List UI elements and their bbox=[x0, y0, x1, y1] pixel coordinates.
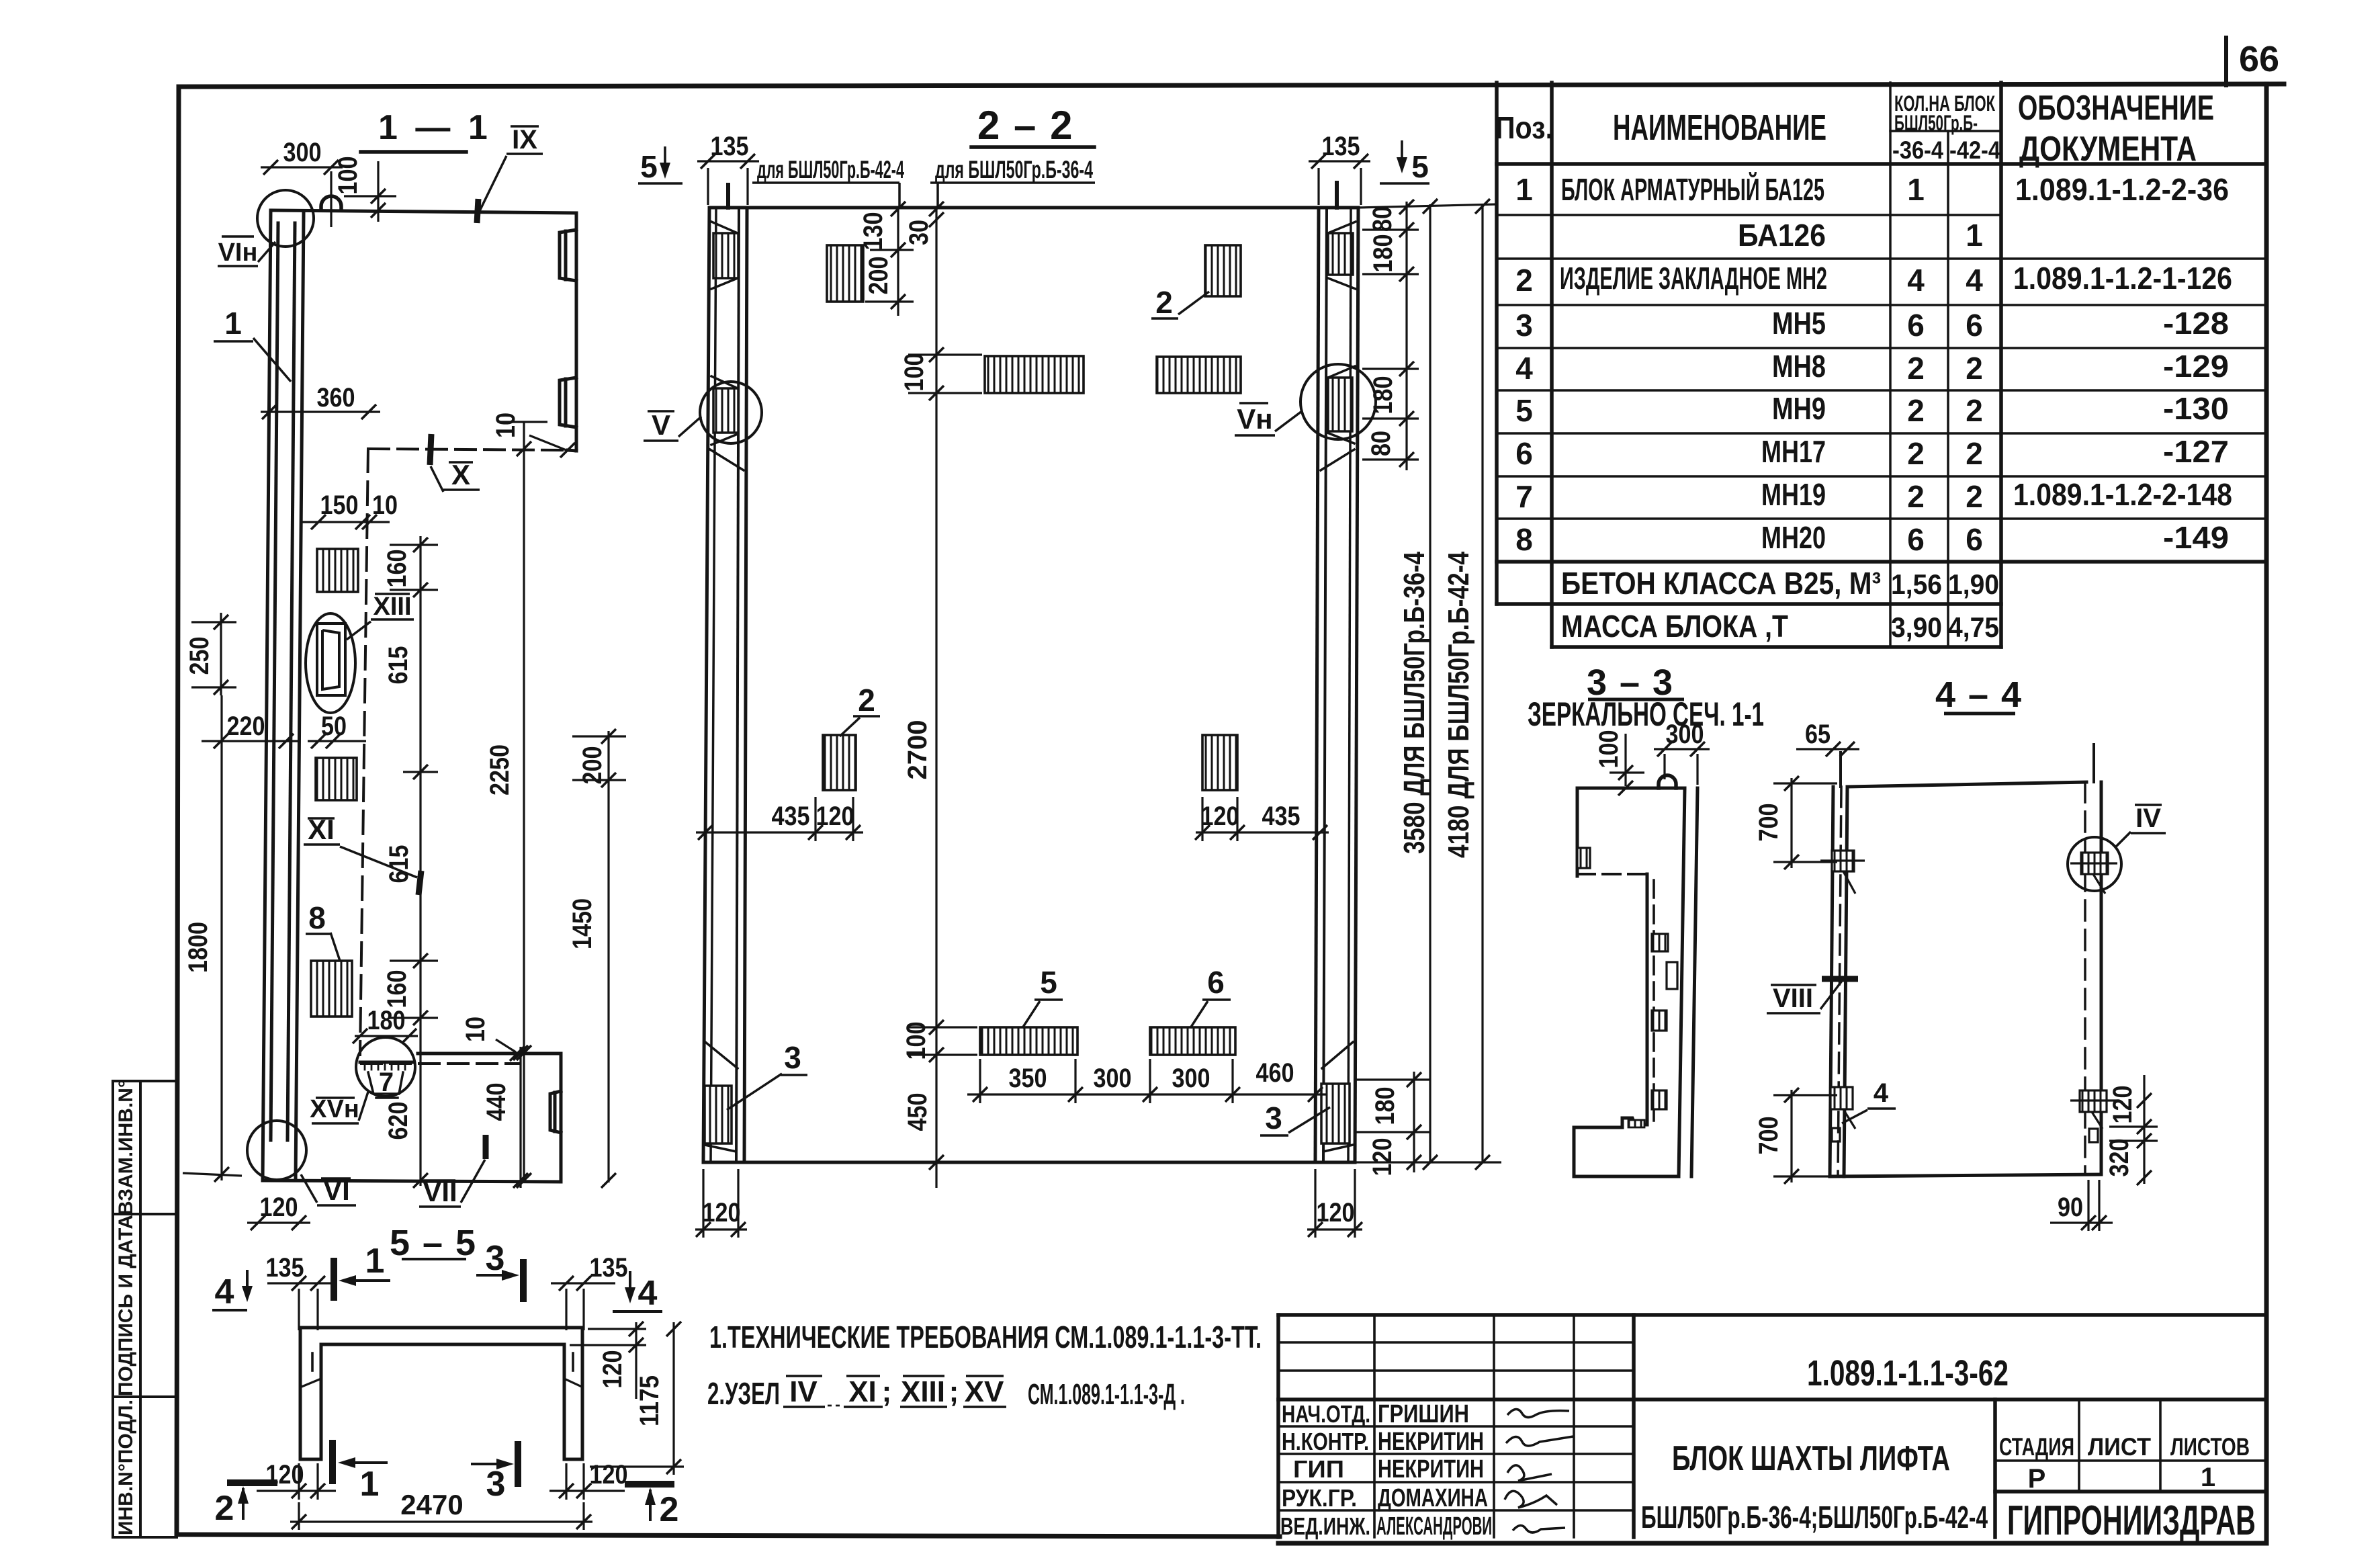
svg-text:1: 1 bbox=[1515, 172, 1533, 207]
svg-text:2250: 2250 bbox=[485, 744, 515, 795]
svg-text:1.089.1-1.1-3-62: 1.089.1-1.1-3-62 bbox=[1807, 1353, 2009, 1393]
svg-text:80: 80 bbox=[1368, 206, 1397, 232]
3-3 lifting loop bbox=[1659, 775, 1676, 788]
embedded plate (pos 4) upper bbox=[317, 549, 358, 592]
label VIн bbox=[218, 236, 275, 266]
section mark 3 top bbox=[476, 1259, 523, 1302]
right leg inner lines bbox=[1315, 208, 1319, 1162]
svg-text:2: 2 bbox=[1155, 285, 1173, 320]
embedded plate (pos 4) middle bbox=[316, 758, 357, 800]
dim 50 bbox=[308, 740, 366, 742]
4-4 left wall bbox=[1830, 787, 1833, 1176]
hidden vertical edge of flange plane (dashed) bbox=[360, 449, 368, 1055]
left leg plate bottom (pos 3) bbox=[705, 1086, 732, 1144]
svg-text:IV: IV bbox=[2135, 804, 2161, 833]
svg-text:30: 30 bbox=[904, 220, 934, 245]
svg-text:8: 8 bbox=[1515, 522, 1533, 557]
3-3 top face bbox=[1577, 787, 1685, 790]
4-4 plate in circle IV bbox=[2081, 853, 2108, 874]
3-3 left edge lower bbox=[1573, 1127, 1576, 1176]
note 2 numeral underlines bbox=[783, 1406, 825, 1408]
svg-text:1: 1 bbox=[1907, 172, 1925, 207]
dim 435/120 left bbox=[696, 797, 863, 841]
pos2 plate mid-left bbox=[823, 735, 856, 790]
svg-text:-128: -128 bbox=[2163, 306, 2229, 341]
svg-text:100: 100 bbox=[1594, 730, 1624, 769]
dim 135 top-right bbox=[1309, 161, 1370, 205]
svg-text:300: 300 bbox=[283, 138, 322, 167]
svg-text:120: 120 bbox=[703, 1198, 741, 1228]
svg-text:-36-4: -36-4 bbox=[1892, 136, 1943, 164]
3-3 inner vertical bbox=[1646, 874, 1649, 1125]
svg-text:;: ; bbox=[949, 1375, 959, 1408]
left leg bottom trapezoid bbox=[705, 1042, 738, 1068]
svg-text:2: 2 bbox=[1966, 479, 1983, 514]
svg-text:ВЕД.ИНЖ.: ВЕД.ИНЖ. bbox=[1280, 1512, 1370, 1540]
3-3 plate on left edge bbox=[1577, 848, 1590, 868]
left leg plate top bbox=[713, 233, 738, 278]
dim 440 bbox=[519, 1047, 521, 1188]
page number 66 tick bbox=[2224, 38, 2228, 85]
svg-text:4: 4 bbox=[1515, 351, 1533, 386]
label V bbox=[644, 411, 701, 441]
svg-text:IX: IX bbox=[512, 125, 537, 155]
svg-text:МН5: МН5 bbox=[1772, 306, 1826, 341]
svg-text:ПОДПИСЬ И ДАТА: ПОДПИСЬ И ДАТА bbox=[115, 1215, 137, 1396]
4-4 right wall bbox=[2084, 782, 2086, 1174]
svg-text:180: 180 bbox=[1370, 1087, 1400, 1125]
svg-text:135: 135 bbox=[1322, 132, 1360, 161]
svg-text:VIII: VIII bbox=[1773, 984, 1813, 1013]
section mark 3 bottom bbox=[471, 1441, 518, 1487]
svg-text:6: 6 bbox=[1207, 965, 1225, 1000]
svg-text:6: 6 bbox=[1966, 308, 1983, 343]
dim 2470 bbox=[290, 1502, 592, 1530]
svg-text:ГИП: ГИП bbox=[1293, 1455, 1344, 1483]
XVн trapezoid 7 bbox=[368, 1072, 403, 1094]
svg-text:МН20: МН20 bbox=[1761, 520, 1826, 555]
svg-text:5: 5 bbox=[1411, 149, 1429, 184]
svg-text:4: 4 bbox=[1874, 1078, 1889, 1108]
detail circle VIн bbox=[257, 190, 314, 247]
svg-text:БА126: БА126 bbox=[1738, 218, 1826, 253]
svg-text:-42-4: -42-4 bbox=[1949, 136, 2000, 164]
bottom flange notch bbox=[550, 1091, 561, 1133]
svg-text:350: 350 bbox=[1009, 1064, 1047, 1093]
upper flange notch 1 bbox=[560, 230, 576, 281]
section mark 2 left bbox=[227, 1483, 277, 1520]
section mark 1 top bbox=[334, 1258, 390, 1301]
svg-text:1,56: 1,56 bbox=[1891, 568, 1942, 600]
svg-text:6: 6 bbox=[1907, 308, 1925, 343]
svg-text:5: 5 bbox=[1515, 393, 1533, 428]
svg-text:БШЛ50Гр.Б-36-4;БШЛ50Гр.Б-42-4: БШЛ50Гр.Б-36-4;БШЛ50Гр.Б-42-4 bbox=[1641, 1500, 1988, 1535]
svg-text:435: 435 bbox=[772, 802, 810, 831]
dimension chain right of wall bbox=[390, 536, 438, 1186]
svg-text:620: 620 bbox=[384, 1102, 413, 1140]
svg-text:V: V bbox=[652, 409, 670, 441]
svg-text:2: 2 bbox=[1907, 479, 1925, 514]
wall inner face line bbox=[296, 213, 304, 1180]
U-channel outline bbox=[300, 1328, 582, 1459]
3-3 plate 1 on inner edge bbox=[1652, 934, 1668, 951]
svg-text:1 — 1: 1 — 1 bbox=[378, 108, 492, 147]
dim 360 bbox=[261, 411, 380, 413]
4-4 dim 65 bbox=[1796, 748, 1859, 750]
4-4 bottom line bbox=[1830, 1174, 2101, 1176]
3-3 inner hidden vertical dashed bbox=[1652, 880, 1655, 1121]
svg-text:6: 6 bbox=[1907, 522, 1925, 557]
right leg trapezoids at Vн bbox=[1328, 366, 1355, 378]
svg-text:2: 2 bbox=[1907, 393, 1925, 428]
svg-text:120: 120 bbox=[590, 1460, 628, 1490]
svg-text:XI: XI bbox=[848, 1375, 877, 1408]
svg-text:2: 2 bbox=[1966, 351, 1983, 386]
dim 120 under circle VI bbox=[247, 1221, 310, 1223]
svg-text:2700: 2700 bbox=[903, 720, 932, 780]
svg-text:1: 1 bbox=[224, 306, 242, 341]
svg-text:100: 100 bbox=[901, 1022, 931, 1060]
left leg plate at V bbox=[713, 388, 738, 433]
svg-text:3: 3 bbox=[1265, 1101, 1282, 1135]
4-4 label IV bbox=[2115, 805, 2166, 848]
4-4 plate lower left bbox=[1831, 1087, 1853, 1109]
leg inner dashes bbox=[311, 1353, 314, 1371]
svg-text:БЛОК ШАХТЫ ЛИФТА: БЛОК ШАХТЫ ЛИФТА bbox=[1672, 1439, 1950, 1478]
XVн plate line bbox=[360, 1061, 412, 1064]
svg-text:6: 6 bbox=[1966, 522, 1983, 557]
svg-text:180: 180 bbox=[367, 1006, 406, 1035]
svg-text:МН17: МН17 bbox=[1761, 434, 1826, 469]
svg-text:100: 100 bbox=[333, 157, 363, 195]
svg-text:80: 80 bbox=[1366, 431, 1396, 456]
svg-text:VII: VII bbox=[423, 1176, 457, 1207]
svg-text:10: 10 bbox=[461, 1017, 490, 1042]
svg-text:160: 160 bbox=[382, 550, 412, 588]
svg-text:1.089.1-1.2-1-126: 1.089.1-1.2-1-126 bbox=[2013, 261, 2232, 296]
panel top face bbox=[709, 206, 1358, 210]
wall rebar line A bbox=[271, 223, 278, 1140]
svg-text:;: ; bbox=[882, 1375, 892, 1408]
strip plate upper-right bbox=[1157, 357, 1241, 393]
svg-text:460: 460 bbox=[1256, 1058, 1294, 1088]
svg-text:3,90: 3,90 bbox=[1891, 611, 1942, 643]
3-3 upper flange bottom (dashed) bbox=[1577, 873, 1647, 875]
detail circle Vн bbox=[1301, 364, 1376, 439]
signatures bbox=[1505, 1409, 1573, 1533]
svg-text:120: 120 bbox=[260, 1193, 298, 1222]
svg-text:700: 700 bbox=[1754, 804, 1783, 842]
svg-text:XIII: XIII bbox=[901, 1375, 945, 1408]
4-4 top line bbox=[1847, 782, 2086, 787]
right leg plate top bbox=[1328, 233, 1353, 275]
lifting loop bbox=[321, 196, 341, 210]
svg-text:2: 2 bbox=[215, 1489, 234, 1528]
svg-text:МН19: МН19 bbox=[1761, 477, 1826, 512]
svg-text:135: 135 bbox=[711, 132, 749, 161]
svg-text:1: 1 bbox=[1966, 218, 1983, 253]
label VI bbox=[301, 1174, 356, 1205]
svg-text:180: 180 bbox=[1368, 376, 1398, 415]
pos2 plate top-left bbox=[827, 245, 863, 302]
svg-text:VIн: VIн bbox=[218, 239, 258, 267]
svg-text:для БШЛ50Гр.Б-36-4: для БШЛ50Гр.Б-36-4 bbox=[935, 156, 1093, 183]
3-3 notch hatch bbox=[1628, 1120, 1644, 1127]
svg-text:120: 120 bbox=[1368, 1138, 1397, 1176]
3-3 bottom edge bbox=[1574, 1175, 1679, 1178]
svg-text:1.089.1-1.2-2-148: 1.089.1-1.2-2-148 bbox=[2013, 477, 2232, 512]
svg-text:МН8: МН8 bbox=[1772, 349, 1826, 384]
dim 135 top-right bbox=[551, 1283, 615, 1330]
svg-text:БШЛ50Гр.Б-: БШЛ50Гр.Б- bbox=[1894, 111, 1978, 135]
svg-text:7: 7 bbox=[1515, 479, 1533, 514]
svg-text:ЛИСТ: ЛИСТ bbox=[2088, 1433, 2151, 1461]
svg-text:ВЗАМ.ИНВ.N°: ВЗАМ.ИНВ.N° bbox=[115, 1080, 137, 1215]
svg-text:135: 135 bbox=[266, 1253, 304, 1283]
svg-text:Поз.: Поз. bbox=[1495, 110, 1553, 145]
svg-text:ГИПРОНИИЗДРАВ: ГИПРОНИИЗДРАВ bbox=[2007, 1498, 2256, 1544]
svg-text:3: 3 bbox=[486, 1465, 506, 1504]
svg-text:300: 300 bbox=[1666, 720, 1704, 749]
3-3 tall slot bbox=[1667, 962, 1677, 989]
svg-text:4: 4 bbox=[215, 1273, 234, 1311]
dim 120 slab right bbox=[570, 1322, 646, 1399]
leg diagonal marks bbox=[302, 1379, 321, 1387]
svg-text:НАИМЕНОВАНИЕ: НАИМЕНОВАНИЕ bbox=[1613, 107, 1826, 148]
svg-text:XVн: XVн bbox=[310, 1095, 359, 1123]
svg-text:120: 120 bbox=[1201, 802, 1239, 831]
svg-text:ГРИШИН: ГРИШИН bbox=[1378, 1400, 1469, 1428]
wall rebar line B bbox=[288, 223, 295, 1140]
wall outer face line bbox=[263, 210, 271, 1180]
4-4 small rect lower left bbox=[1832, 1128, 1840, 1142]
dim 2250 bbox=[498, 422, 547, 1181]
label IX bbox=[477, 126, 543, 223]
svg-text:ИЗДЕЛИЕ ЗАКЛАДНОЕ МН2: ИЗДЕЛИЕ ЗАКЛАДНОЕ МН2 bbox=[1560, 261, 1827, 296]
svg-text:4 – 4: 4 – 4 bbox=[1935, 675, 2023, 715]
3-3 plate 3 on inner edge bbox=[1652, 1090, 1667, 1109]
svg-text:ЛИСТОВ: ЛИСТОВ bbox=[2170, 1433, 2250, 1461]
svg-text:65: 65 bbox=[1805, 720, 1831, 749]
overall dim 4180 bbox=[1481, 204, 1483, 1162]
svg-text:1450: 1450 bbox=[568, 898, 597, 949]
svg-text:1: 1 bbox=[365, 1242, 385, 1281]
svg-text:Р: Р bbox=[2028, 1464, 2046, 1494]
upper flange right edge bbox=[575, 213, 578, 451]
dim 120 bottom-right bbox=[549, 1463, 625, 1500]
svg-text:250: 250 bbox=[185, 637, 214, 675]
svg-text:МАССА БЛОКА ,Т: МАССА БЛОКА ,Т bbox=[1561, 609, 1788, 644]
svg-text:для БШЛ50Гр.Б-42-4: для БШЛ50Гр.Б-42-4 bbox=[757, 156, 904, 183]
svg-text:435: 435 bbox=[1262, 802, 1301, 831]
svg-text:615: 615 bbox=[384, 646, 413, 685]
svg-text:2: 2 bbox=[660, 1490, 679, 1529]
right leg bottom trapezoid bbox=[1322, 1042, 1353, 1068]
table outer and verticals bbox=[1495, 83, 1499, 604]
pos2 plate top-right bbox=[1205, 245, 1241, 296]
dim 100 top bbox=[344, 161, 396, 222]
3-3 bottom flange top with notch bbox=[1574, 1118, 1647, 1127]
svg-text:2: 2 bbox=[1515, 263, 1533, 298]
4-4 plate upper left bbox=[1832, 851, 1854, 871]
svg-text:1.ТЕХНИЧЕСКИЕ ТРЕБОВАНИЯ СМ.: 1.ТЕХНИЧЕСКИЕ ТРЕБОВАНИЯ СМ.1.089.1-1.1-… bbox=[709, 1320, 1262, 1354]
svg-text:150: 150 bbox=[320, 490, 359, 520]
dim 350/300/300/460 bbox=[967, 1059, 1327, 1103]
svg-text:-127: -127 bbox=[2163, 434, 2229, 469]
svg-text:1,90: 1,90 bbox=[1948, 568, 1999, 600]
4-4 dim 700 upper bbox=[1773, 778, 1837, 868]
table horizontals bbox=[1497, 162, 2266, 166]
4-4 plate lower right bbox=[2080, 1090, 2107, 1112]
wall bottom edge bbox=[263, 1180, 561, 1182]
svg-text:3580 ДЛЯ БШЛ50Гр.Б-36-4: 3580 ДЛЯ БШЛ50Гр.Б-36-4 bbox=[1398, 552, 1431, 854]
dim 120 bottom-left bbox=[257, 1463, 336, 1500]
right leg plate at Vн bbox=[1328, 378, 1352, 431]
3-3 dim 100 bbox=[1610, 734, 1644, 786]
strip plate 6 bbox=[1150, 1027, 1235, 1055]
svg-text:2.УЗЕЛ: 2.УЗЕЛ bbox=[707, 1376, 780, 1411]
dim 200/1450 chain bbox=[572, 731, 626, 1182]
svg-text:XIII: XIII bbox=[373, 593, 411, 621]
detail circle VI (bottom) bbox=[247, 1121, 306, 1180]
svg-text:7: 7 bbox=[379, 1068, 394, 1097]
dim 80/180 top right chain bbox=[1358, 202, 1498, 470]
left leg trapezoid diagonals top bbox=[711, 222, 738, 233]
svg-text:АЛЕКСАНДРОВИ: АЛЕКСАНДРОВИ bbox=[1376, 1512, 1492, 1541]
svg-text:ДОМАХИНА: ДОМАХИНА bbox=[1378, 1484, 1488, 1512]
dim 1800 left bbox=[183, 695, 242, 1180]
dim 150 / 10 bbox=[302, 521, 390, 523]
svg-text:4180 ДЛЯ БШЛ50Гр.Б-42-4: 4180 ДЛЯ БШЛ50Гр.Б-42-4 bbox=[1442, 552, 1475, 858]
svg-text:3: 3 bbox=[784, 1040, 801, 1075]
label XVн bbox=[312, 1092, 368, 1123]
detail circle XVн bbox=[356, 1037, 415, 1096]
svg-text:160: 160 bbox=[382, 970, 412, 1008]
dim 135 top-left bbox=[697, 161, 759, 205]
svg-text:XV: XV bbox=[965, 1375, 1004, 1408]
svg-text:1: 1 bbox=[360, 1465, 380, 1504]
svg-text:Н.КОНТР.: Н.КОНТР. bbox=[1282, 1428, 1369, 1455]
section mark 2 right bbox=[625, 1484, 674, 1521]
3-3 plate 2 on inner edge bbox=[1652, 1010, 1667, 1031]
upper flange notch 2 bbox=[560, 378, 576, 427]
4-4 dim 90 bbox=[2050, 1180, 2113, 1231]
svg-text:130: 130 bbox=[858, 212, 888, 251]
overall dim 3580 bbox=[1429, 204, 1431, 1162]
strip plate 5 bbox=[980, 1027, 1077, 1055]
oval opening detail XIII bbox=[306, 613, 355, 713]
label Vн bbox=[1235, 403, 1302, 435]
svg-text:НЕКРИТИН: НЕКРИТИН bbox=[1378, 1428, 1484, 1456]
svg-text:НЕКРИТИН: НЕКРИТИН bbox=[1378, 1455, 1484, 1483]
section mark 1 bottom bbox=[333, 1440, 388, 1484]
panel bottom edge bbox=[703, 1161, 1355, 1164]
svg-text:450: 450 bbox=[903, 1093, 932, 1131]
4-4 dim 700 lower bbox=[1773, 1090, 1837, 1182]
stamp horizontals bbox=[1278, 1341, 1634, 1344]
dim 120/435 right bbox=[1196, 797, 1329, 841]
3-3 wall right face lines bbox=[1679, 788, 1685, 1176]
svg-text:ДОКУМЕНТА: ДОКУМЕНТА bbox=[2019, 130, 2197, 169]
strip plate upper-left bbox=[985, 356, 1084, 393]
bottom flange top edge bbox=[418, 1052, 561, 1056]
svg-text:120: 120 bbox=[816, 802, 854, 831]
svg-text:90: 90 bbox=[2058, 1193, 2083, 1222]
svg-text:10: 10 bbox=[491, 413, 521, 438]
svg-text:5: 5 bbox=[1040, 965, 1057, 1000]
svg-text:5 – 5: 5 – 5 bbox=[390, 1223, 477, 1263]
dim 1175 right bbox=[590, 1322, 684, 1475]
dim 300 top bbox=[261, 167, 343, 227]
svg-text:XI: XI bbox=[308, 814, 335, 845]
left leg inner lines bbox=[736, 208, 739, 1162]
4-4 detail circle IV bbox=[2068, 837, 2121, 891]
svg-text:50: 50 bbox=[321, 712, 347, 741]
svg-text:1.089.1-1.2-2-36: 1.089.1-1.2-2-36 bbox=[2015, 172, 2229, 207]
detail circle V bbox=[700, 382, 762, 443]
svg-text:6: 6 bbox=[1515, 436, 1533, 471]
pos2 plate mid-right bbox=[1202, 735, 1237, 790]
svg-text:300: 300 bbox=[1094, 1064, 1132, 1093]
svg-text:1175: 1175 bbox=[635, 1375, 664, 1426]
svg-text:100: 100 bbox=[899, 353, 929, 392]
svg-text:СТАДИЯ: СТАДИЯ bbox=[1999, 1433, 2074, 1461]
svg-text:66: 66 bbox=[2239, 39, 2279, 79]
svg-text:IV: IV bbox=[789, 1375, 818, 1408]
4-4 small rect lower right bbox=[2089, 1129, 2098, 1142]
svg-text:2: 2 bbox=[858, 683, 875, 718]
svg-text:440: 440 bbox=[482, 1083, 511, 1121]
top stubs bbox=[726, 185, 730, 208]
svg-text:1800: 1800 bbox=[183, 922, 213, 973]
svg-text:4: 4 bbox=[1907, 263, 1925, 298]
dim 135 top-left bbox=[267, 1283, 336, 1330]
svg-text:-129: -129 bbox=[2163, 349, 2229, 384]
right leg trapezoid diagonals top bbox=[1328, 222, 1356, 233]
svg-text:120: 120 bbox=[598, 1350, 627, 1389]
upper flange bottom hidden edge (dashed) bbox=[369, 449, 568, 450]
dim 180/120 bottom right bbox=[1355, 1072, 1501, 1172]
wall top face bbox=[271, 210, 576, 213]
svg-text:220: 220 bbox=[227, 712, 265, 741]
dim line 130/200 bbox=[865, 208, 914, 316]
svg-text:120: 120 bbox=[2108, 1086, 2137, 1124]
svg-text:ЗЕРКАЛЬНО СЕЧ. 1-1: ЗЕРКАЛЬНО СЕЧ. 1-1 bbox=[1528, 695, 1764, 733]
label VII bbox=[419, 1135, 486, 1207]
svg-text:120: 120 bbox=[1317, 1198, 1355, 1228]
svg-text:2: 2 bbox=[1966, 393, 1983, 428]
dim 220 bbox=[202, 740, 299, 742]
label X bbox=[430, 434, 480, 492]
svg-text:4: 4 bbox=[638, 1274, 658, 1313]
svg-text:VI: VI bbox=[323, 1174, 350, 1206]
section 1-1 title underline bbox=[361, 150, 466, 154]
right leg plate bottom (pos 3) bbox=[1321, 1084, 1350, 1144]
svg-text:5: 5 bbox=[640, 149, 658, 184]
svg-text:3: 3 bbox=[486, 1239, 505, 1278]
dim 120 bottom left leg bbox=[695, 1169, 747, 1238]
svg-text:135: 135 bbox=[590, 1253, 628, 1283]
svg-text:Vн: Vн bbox=[1237, 403, 1272, 435]
right leg outer lines bbox=[1348, 208, 1351, 1162]
left leg outer lines bbox=[703, 208, 709, 1162]
svg-text:4,75: 4,75 bbox=[1948, 611, 1999, 643]
4-4 dims 120/320 right bbox=[2109, 1075, 2158, 1184]
left leg trapezoid diagonals at V bbox=[711, 376, 738, 388]
3-3 left edge upper bbox=[1576, 788, 1579, 876]
svg-text:БЕТОН КЛАССА В25, М³: БЕТОН КЛАССА В25, М³ bbox=[1561, 566, 1881, 601]
stamp outline bbox=[1278, 1313, 2266, 1317]
